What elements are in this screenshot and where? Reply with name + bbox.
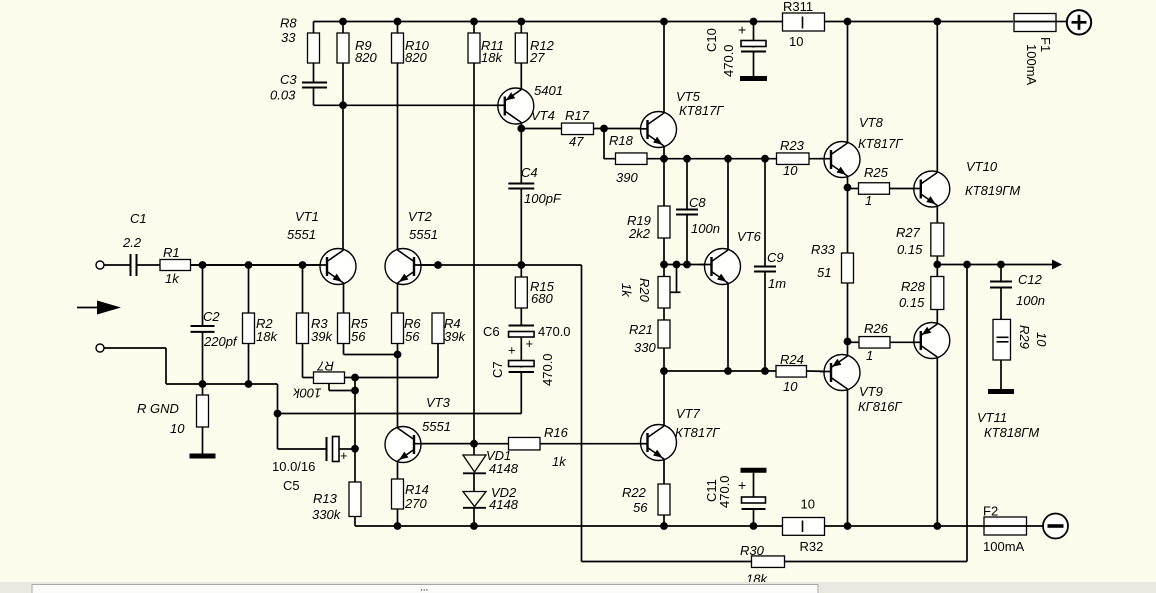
svg-text:1: 1 [865,193,872,208]
svg-text:R26: R26 [864,321,889,336]
svg-text:+: + [340,448,348,463]
svg-text:C7: C7 [490,361,505,378]
svg-text:R32: R32 [800,539,824,554]
svg-text:1: 1 [866,348,873,363]
svg-text:VT1: VT1 [295,209,319,224]
svg-text:1m: 1m [768,276,786,291]
svg-text:220pf: 220pf [203,334,238,349]
svg-text:C1: C1 [130,211,147,226]
svg-text:R23: R23 [780,138,805,153]
svg-text:5551: 5551 [422,419,451,434]
svg-text:0.03: 0.03 [270,88,296,103]
svg-text:+: + [508,343,516,358]
svg-text:R33: R33 [811,242,836,257]
svg-text:R1: R1 [163,245,180,260]
svg-text:270: 270 [404,496,427,511]
svg-text:100mA: 100mA [983,539,1025,554]
svg-text:470.0: 470.0 [717,475,732,508]
svg-text:100n: 100n [1016,293,1045,308]
svg-text:КГ816Г: КГ816Г [858,399,902,414]
svg-text:0.15: 0.15 [897,242,923,257]
svg-text:39k: 39k [311,329,333,344]
svg-text:51: 51 [817,265,831,280]
svg-text:1k: 1k [165,271,180,286]
svg-text:10: 10 [170,421,185,436]
svg-text:680: 680 [531,291,553,306]
svg-text:27: 27 [529,50,545,65]
svg-text:10: 10 [801,497,815,512]
svg-text:C4: C4 [521,165,538,180]
svg-text:VT11: VT11 [977,410,1007,425]
svg-text:R29: R29 [1017,325,1032,349]
svg-text:47: 47 [569,134,584,149]
svg-text:4148: 4148 [489,461,519,476]
svg-text:C5: C5 [283,478,300,493]
svg-text:C10: C10 [704,28,719,52]
svg-text:18k: 18k [256,329,278,344]
svg-text:10: 10 [789,34,803,49]
svg-text:820: 820 [355,50,377,65]
svg-text:R GND: R GND [137,401,179,416]
svg-text:100n: 100n [691,221,720,236]
svg-text:C9: C9 [767,250,784,265]
svg-text:100mA: 100mA [1024,44,1039,86]
svg-text:C8: C8 [689,195,706,210]
svg-text:КТ818ГМ: КТ818ГМ [984,425,1039,440]
svg-text:VT7: VT7 [676,406,701,421]
svg-text:5551: 5551 [409,227,438,242]
svg-text:R8: R8 [280,16,297,31]
svg-text:+: + [526,336,534,351]
svg-text:330k: 330k [312,507,342,522]
svg-text:R311: R311 [783,0,813,14]
svg-text:5551: 5551 [287,227,316,242]
svg-text:R21: R21 [629,322,653,337]
svg-text:C6: C6 [483,324,500,339]
svg-text:КТ817Г: КТ817Г [679,103,724,118]
svg-text:...: ... [420,583,428,593]
svg-text:VT2: VT2 [408,209,433,224]
svg-text:10: 10 [1034,332,1049,347]
svg-text:100pF: 100pF [524,191,562,206]
svg-text:C3: C3 [280,72,297,87]
svg-text:VT6: VT6 [737,229,762,244]
svg-text:39k: 39k [444,329,466,344]
svg-text:390: 390 [616,170,638,185]
svg-text:C12: C12 [1018,272,1043,287]
svg-text:R18: R18 [609,133,634,148]
svg-text:470.0: 470.0 [540,353,555,386]
svg-text:R14: R14 [405,482,429,497]
svg-text:VT9: VT9 [859,384,883,399]
svg-text:470.0: 470.0 [721,44,736,77]
svg-text:R22: R22 [622,485,647,500]
svg-text:18k: 18k [481,50,503,65]
svg-text:+: + [738,477,746,493]
svg-text:R16: R16 [544,425,569,440]
svg-text:VT8: VT8 [859,115,884,130]
svg-text:5401: 5401 [534,83,563,98]
svg-text:R13: R13 [313,491,338,506]
svg-text:10: 10 [783,379,798,394]
svg-text:F2: F2 [983,504,998,519]
svg-text:330: 330 [634,340,656,355]
svg-text:R27: R27 [896,225,921,240]
svg-text:R17: R17 [565,108,590,123]
svg-text:VT4: VT4 [531,108,555,123]
svg-text:F1: F1 [1038,37,1053,52]
svg-text:100k: 100k [292,386,322,401]
svg-text:КТ817Г: КТ817Г [675,425,720,440]
svg-text:33: 33 [281,30,296,45]
svg-text:10.0/16: 10.0/16 [272,459,315,474]
svg-text:R20: R20 [637,278,652,303]
svg-text:4148: 4148 [489,497,519,512]
svg-text:C2: C2 [203,309,220,324]
svg-text:2.2: 2.2 [122,235,142,250]
svg-text:VT5: VT5 [676,89,701,104]
svg-text:820: 820 [405,50,427,65]
svg-text:56: 56 [633,500,648,515]
svg-text:R28: R28 [901,279,926,294]
svg-text:R30: R30 [740,543,765,558]
svg-text:КТ817Г: КТ817Г [858,136,903,151]
svg-text:1k: 1k [619,283,634,298]
svg-text:470.0: 470.0 [538,324,571,339]
svg-text:0.15: 0.15 [899,295,925,310]
svg-text:R7: R7 [317,359,334,374]
svg-text:КТ819ГМ: КТ819ГМ [965,183,1020,198]
svg-text:R25: R25 [864,165,889,180]
svg-text:56: 56 [351,329,366,344]
svg-text:VT10: VT10 [966,159,998,174]
svg-text:10: 10 [783,163,798,178]
svg-text:2k2: 2k2 [628,226,651,241]
svg-text:VT3: VT3 [426,395,451,410]
svg-text:1k: 1k [552,454,567,469]
svg-text:+: + [738,22,746,38]
svg-text:56: 56 [405,329,420,344]
svg-text:R24: R24 [780,352,804,367]
